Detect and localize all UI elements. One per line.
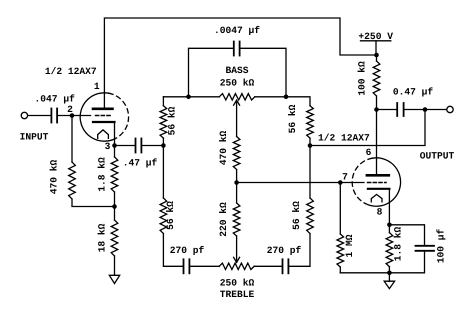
svg-text:6: 6	[366, 147, 372, 158]
pin 8	[377, 206, 383, 217]
V2 plate bar	[367, 174, 389, 177]
label OUTPUT	[420, 150, 455, 161]
pin 7	[342, 171, 348, 182]
svg-text:18 kΩ: 18 kΩ	[97, 223, 108, 252]
svg-text:270 pf: 270 pf	[170, 245, 205, 256]
label 18 kohm	[97, 223, 108, 252]
left column wire top	[162, 97, 164, 106]
label 100 uf	[436, 228, 447, 263]
label 470 kohm left	[49, 159, 60, 194]
svg-text:0.47 µf: 0.47 µf	[393, 86, 434, 97]
label 470 kohm mid	[218, 130, 229, 165]
wire input to C1	[28, 115, 51, 117]
label TREBLE	[220, 289, 255, 300]
label .47 uf	[123, 157, 158, 168]
right column wire mid	[309, 138, 311, 198]
tube V2 envelope solid arc	[365, 158, 400, 206]
svg-text:TREBLE: TREBLE	[220, 289, 255, 300]
label 1.8 kohm right	[393, 226, 404, 261]
node ground rail	[387, 271, 392, 276]
resistor R6 220 kohm	[233, 183, 240, 237]
tube V1 envelope dashed arc	[109, 93, 129, 138]
svg-text:7: 7	[342, 171, 348, 182]
wire C3 to treble	[190, 265, 219, 267]
svg-text:2: 2	[67, 104, 73, 115]
pin 3	[105, 141, 111, 152]
wire treble to C4	[254, 265, 282, 267]
resistor R1 470 kohm	[69, 116, 115, 207]
label +250 V	[358, 31, 393, 42]
capacitor C5 0.47 uf	[397, 103, 403, 116]
label 250 kohm treble	[220, 278, 255, 289]
svg-text:56 kΩ: 56 kΩ	[167, 106, 178, 135]
V2 cathode bar	[368, 188, 390, 190]
ground symbol left	[109, 275, 119, 283]
wire bass right	[255, 96, 286, 98]
node V2 plate	[374, 107, 379, 112]
potentiometer BASS 250k body	[219, 94, 255, 100]
node bass right	[284, 95, 289, 100]
wire V1 plate to top rail	[104, 18, 376, 108]
wire +250V stub	[375, 41, 377, 55]
V1 grid dashes	[96, 115, 111, 117]
node right column	[308, 143, 313, 148]
wire C4 to right column	[289, 234, 310, 267]
svg-text:1/2 12AX7: 1/2 12AX7	[318, 133, 370, 144]
output terminal J2	[447, 106, 453, 112]
label 56 kohm UL	[167, 106, 178, 135]
ground symbol right	[384, 281, 394, 288]
+250V underline	[361, 40, 391, 42]
input terminal J1	[21, 112, 27, 118]
label 1.8 kohm left	[97, 157, 108, 192]
resistor R7 100 kohm	[373, 55, 380, 110]
label .047 uf	[35, 93, 76, 104]
resistor R2 1.8 kohm left	[111, 146, 118, 207]
label 1 Mohm	[344, 234, 355, 257]
wire C6 bottom	[340, 251, 424, 272]
svg-text:.047 µf: .047 µf	[35, 93, 76, 104]
wire V2 cathode drop	[388, 189, 390, 225]
pin 1	[94, 81, 100, 92]
label 56 kohm LR	[291, 201, 302, 230]
wire cathode to C6	[389, 225, 424, 245]
node mid column	[234, 180, 239, 185]
tube V2 envelope dashed arc	[352, 158, 372, 203]
node bass left	[186, 95, 191, 100]
wire V2 plate lead	[376, 110, 378, 176]
capacitor C7 .47 uf	[136, 139, 142, 153]
svg-text:250 kΩ: 250 kΩ	[220, 278, 255, 289]
pin 2	[67, 104, 73, 115]
label 100 kohm	[357, 61, 368, 96]
svg-text:56 kΩ: 56 kΩ	[287, 104, 298, 133]
left column wire bottom	[163, 234, 182, 267]
wire bass cap loop	[189, 48, 287, 97]
label 1/2 12AX7 V2	[318, 133, 370, 144]
V1 heater	[98, 130, 109, 138]
resistor R3 56 kohm upper left	[160, 106, 167, 138]
label INPUT	[20, 131, 49, 142]
label 56 kohm UR	[287, 104, 298, 133]
resistor R11 1.8 kohm right	[386, 225, 393, 273]
resistor R10 1 Mohm	[337, 183, 344, 273]
right column wire top	[286, 97, 310, 106]
svg-text:1 MΩ: 1 MΩ	[344, 234, 355, 257]
label 0.47 uf	[393, 86, 434, 97]
V1 cathode bar	[93, 121, 115, 123]
svg-text:470 kΩ: 470 kΩ	[49, 159, 60, 194]
svg-text:1.8 kΩ: 1.8 kΩ	[393, 226, 404, 261]
node pin3	[112, 143, 117, 148]
node cathode network	[112, 204, 117, 209]
wire feedback to tone network	[310, 110, 425, 146]
svg-text:OUTPUT: OUTPUT	[420, 150, 455, 161]
tube V1 envelope solid arc	[80, 93, 115, 141]
node 1M top	[338, 180, 343, 185]
resistor R4 56 kohm lower left	[160, 198, 167, 234]
svg-text:.47 µf: .47 µf	[123, 157, 158, 168]
label BASS	[225, 65, 248, 76]
wire pin3 to C7	[115, 145, 135, 147]
resistor R9 56 kohm lower right	[307, 198, 314, 234]
svg-text:100 kΩ: 100 kΩ	[357, 61, 368, 96]
node output feedback	[423, 107, 428, 112]
resistor R8 56 kohm upper right	[307, 106, 314, 138]
svg-text:3: 3	[105, 141, 111, 152]
label 56 kohm LL	[165, 201, 176, 230]
label 220 kohm	[218, 202, 229, 237]
svg-text:1/2 12AX7: 1/2 12AX7	[45, 66, 97, 77]
svg-text:56 kΩ: 56 kΩ	[291, 201, 302, 230]
svg-text:270 pf: 270 pf	[267, 245, 302, 256]
capacitor C6 100 uf	[416, 246, 435, 251]
node left column	[161, 143, 166, 148]
capacitor C3 270 pf left	[184, 259, 190, 273]
svg-text:1: 1	[94, 81, 100, 92]
ground stub V2	[388, 273, 390, 281]
node grid V1	[70, 113, 75, 118]
label 1/2 12AX7 V1	[45, 66, 97, 77]
svg-text:.0047 µf: .0047 µf	[214, 25, 260, 36]
V2 heater	[371, 194, 382, 201]
bass wiper arrow	[234, 100, 240, 136]
pin 6	[366, 147, 372, 158]
bass top rail	[163, 96, 219, 98]
svg-text:56 kΩ: 56 kΩ	[165, 201, 176, 230]
treble wiper arrow	[234, 236, 240, 262]
svg-text:8: 8	[377, 206, 383, 217]
V1 plate bar	[93, 108, 113, 111]
grid row wire	[237, 182, 364, 184]
label 270 pf right	[267, 245, 302, 256]
V2 grid dashes	[368, 182, 387, 184]
capacitor C4 270 pf right	[283, 259, 289, 273]
wire V1 cathode drop	[114, 122, 116, 146]
resistor R12 18 kohm	[111, 207, 118, 276]
capacitor C1 .047 uf	[51, 109, 57, 123]
svg-text:1.8 kΩ: 1.8 kΩ	[97, 157, 108, 192]
svg-text:250 kΩ: 250 kΩ	[220, 78, 255, 89]
svg-text:INPUT: INPUT	[20, 131, 49, 142]
label 250 kohm bass	[220, 78, 255, 89]
wire C5 to output	[405, 109, 447, 111]
wire plate node to C5	[377, 109, 397, 111]
wire C7 to left column	[142, 145, 163, 147]
svg-text:470 kΩ: 470 kΩ	[218, 130, 229, 165]
left column wire mid	[162, 138, 164, 198]
node +250 junction	[374, 53, 379, 58]
svg-text:220 kΩ: 220 kΩ	[218, 202, 229, 237]
label 270 pf left	[170, 245, 205, 256]
resistor R5 470 kohm mid	[233, 137, 240, 183]
svg-text:BASS: BASS	[225, 65, 248, 76]
label .0047 uf	[214, 25, 260, 36]
capacitor C2 .0047 uf	[234, 42, 240, 56]
svg-text:100 µf: 100 µf	[436, 228, 447, 263]
node cathode V2	[387, 223, 392, 228]
wire C1 to grid pin2	[58, 115, 91, 117]
potentiometer TREBLE 250k body	[219, 263, 254, 269]
